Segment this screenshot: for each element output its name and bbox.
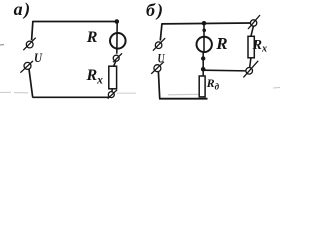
terminal b upper-left [153,38,165,51]
wire b: junction to lower-right terminal [203,69,246,72]
svg-text:а): а) [14,0,32,20]
meter circle (a) [110,33,126,49]
wire b meter lead upper [203,23,205,38]
terminal a lower-left [20,61,33,73]
resistor Rx (a) [109,66,117,89]
wire b meter lead lower [202,53,204,76]
svg-text:R: R [215,34,227,53]
meter diameter line (b) [203,37,205,53]
node b small blob on meter lead [202,29,206,33]
terminal a bottom-right [108,90,117,99]
svg-text:R: R [86,29,98,46]
wire a top [33,21,118,23]
terminal b top-right [248,15,260,29]
wire b: terminal to Rx [251,26,254,36]
wire a left lower [29,69,33,97]
faint show-through line circuit b [168,93,199,96]
terminal a mid-right (above Rx) [113,53,122,62]
faint dash far left [0,44,4,46]
faint show-through line mid [117,92,136,94]
wire a: Rx to bottom terminal [111,89,114,92]
svg-text:U: U [158,50,165,65]
node b below meter [201,56,205,60]
node a top-right junction [115,19,120,24]
wire b: Rx to lower terminal [250,58,251,67]
terminal b lower-right [243,61,258,78]
terminal b lower-left [151,62,164,74]
resistor Rd (b) [199,76,205,97]
terminal a upper-left [23,38,35,51]
wire a: terminal to Rx [114,61,116,66]
wire b left lower [158,72,159,99]
faint mark bottom right [273,86,280,89]
wire a bottom [32,96,108,98]
wire a left upper [32,21,33,40]
resistor Rx (b) [248,36,254,58]
meter circle (b) [197,37,212,52]
node b junction with right wire [201,67,206,72]
wire b top [162,22,250,25]
svg-text:Rд: Rд [206,76,220,92]
wire a right branch lead (through meter) [116,22,118,54]
wire b bottom [159,98,208,100]
svg-text:б): б) [146,0,165,21]
wire b left upper [160,23,162,40]
svg-text:Rx: Rx [86,67,104,87]
faint show-through line left [0,91,28,94]
node b top junction [202,21,207,26]
svg-text:Rx: Rx [252,38,267,55]
svg-text:U: U [34,50,43,65]
